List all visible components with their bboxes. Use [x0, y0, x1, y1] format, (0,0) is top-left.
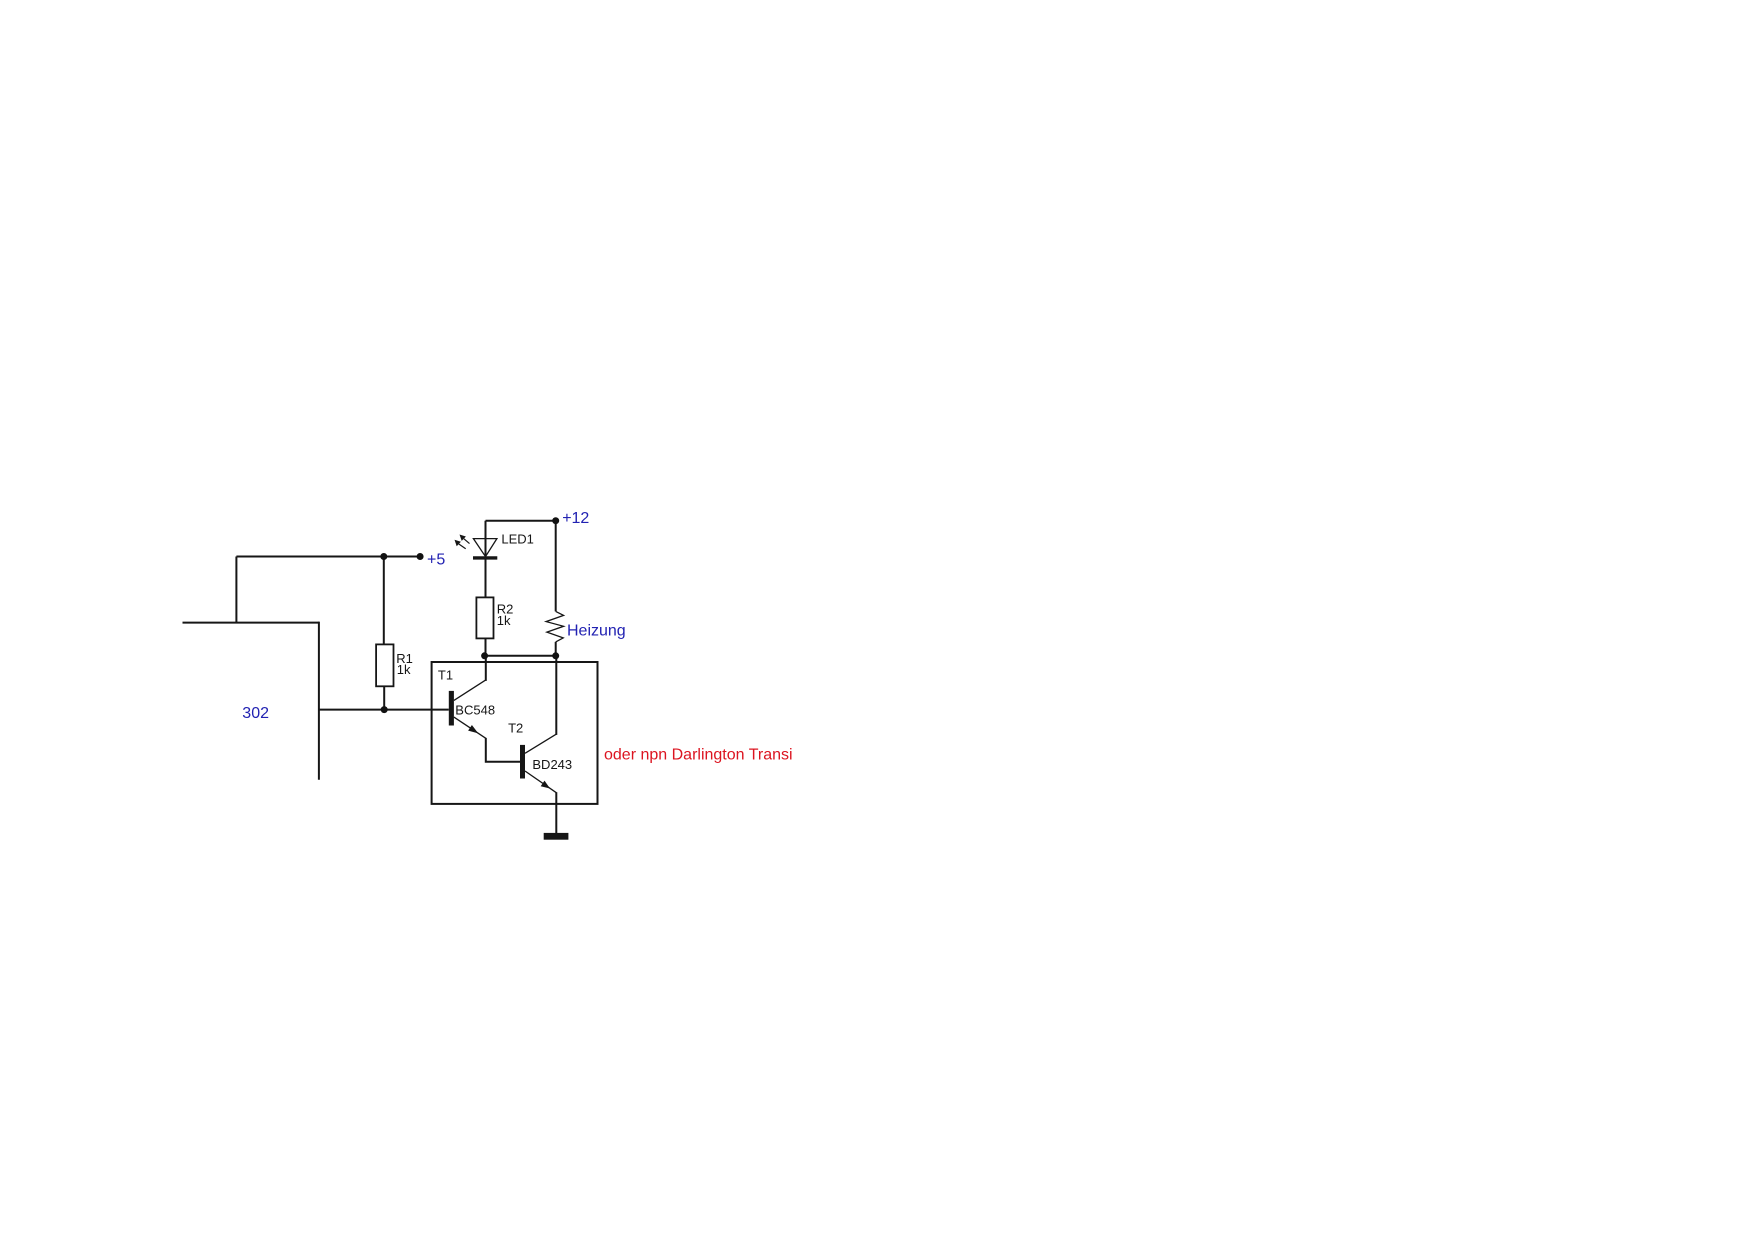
svg-text:BC548: BC548	[455, 703, 495, 718]
svg-text:LED1: LED1	[501, 532, 534, 547]
svg-text:oder npn Darlington Transi: oder npn Darlington Transi	[604, 746, 793, 763]
svg-text:+12: +12	[562, 510, 589, 527]
svg-text:BD243: BD243	[532, 757, 572, 772]
svg-text:302: 302	[242, 705, 269, 722]
svg-text:T2: T2	[508, 720, 523, 735]
svg-text:+5: +5	[427, 551, 445, 568]
svg-text:1k: 1k	[397, 662, 411, 677]
svg-text:T1: T1	[438, 667, 453, 682]
svg-text:Heizung: Heizung	[567, 622, 626, 639]
svg-text:1k: 1k	[497, 613, 511, 628]
